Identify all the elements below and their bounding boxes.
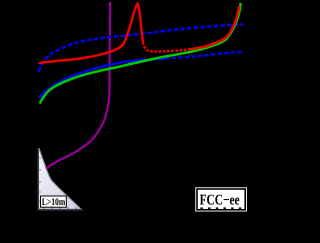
blue lower curve: dashed right part	[165, 52, 243, 59]
blue upper curve: steep start	[38, 55, 50, 72]
x-axis segment visible over gray region	[38, 209, 82, 211]
y-axis minor ticks over gray region	[38, 158, 41, 201]
L>10m label box	[41, 196, 67, 208]
red sigma curve: solid right rise	[189, 6, 239, 49]
blue upper curve: dashed flat part	[50, 25, 244, 55]
purple decay-length contour curve	[46, 2, 110, 169]
shaded region L>10m (gray wedge)	[38, 149, 81, 210]
green coupling curve	[40, 3, 241, 104]
svg-text:L>10m: L>10m	[42, 197, 66, 208]
FCC-ee label box	[196, 188, 247, 211]
x-axis minor ticks over gray region	[44, 207, 76, 209]
svg-text:FCC−ee: FCC−ee	[200, 192, 240, 208]
red sigma curve: solid left part with Z-pole peak	[39, 4, 143, 64]
x-axis minor ticks visible through FCC-ee box	[202, 207, 241, 209]
y-axis segment visible over gray region	[37, 149, 39, 211]
blue lower curve: solid part	[39, 59, 165, 99]
red sigma curve: dashed dip part	[143, 42, 189, 52]
